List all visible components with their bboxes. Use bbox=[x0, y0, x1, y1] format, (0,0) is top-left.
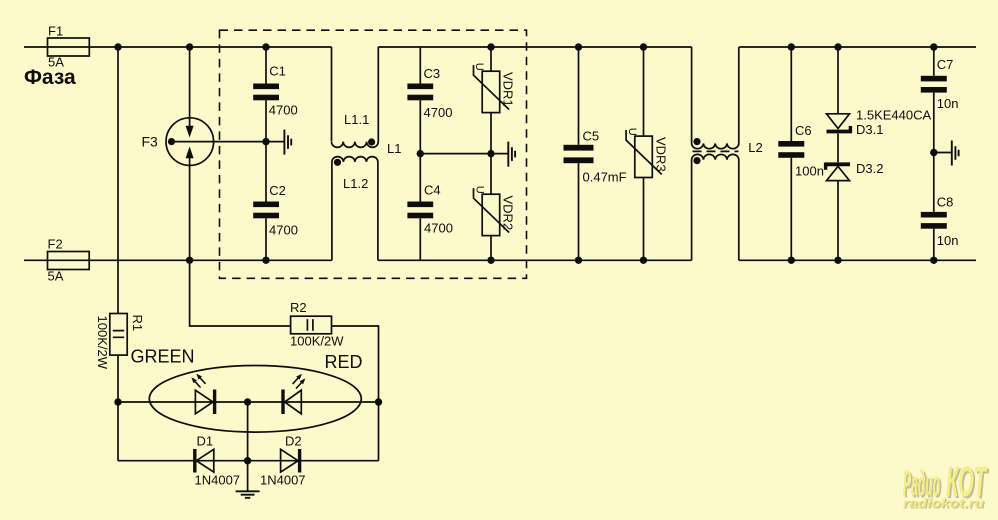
wire C6 bottom lead bbox=[790, 158, 792, 260]
svg-text:RED: RED bbox=[325, 352, 363, 372]
wire VDR2 bottom lead bbox=[490, 236, 492, 261]
junction dots mid lines bbox=[262, 138, 269, 145]
diode D2 bbox=[281, 449, 299, 472]
diode D1 bbox=[196, 449, 214, 472]
wire C3/C4 midpoint line to ground bbox=[420, 153, 508, 155]
wire C3-C4 link bbox=[419, 100, 421, 201]
svg-text:10n: 10n bbox=[937, 96, 959, 111]
watermark Радио КОТ bbox=[903, 458, 990, 512]
svg-text:100K/2W: 100K/2W bbox=[290, 334, 344, 349]
fuse F2 bbox=[48, 252, 90, 270]
L2 core bbox=[693, 150, 739, 152]
node L1.1 polarity dot bbox=[368, 138, 375, 145]
svg-text:VDR1: VDR1 bbox=[501, 72, 516, 107]
F3 lower arrow bbox=[189, 158, 191, 165]
svg-text:1N4007: 1N4007 bbox=[260, 473, 306, 488]
inductor L2 bottom winding bbox=[692, 154, 739, 260]
wire VDR3 bottom lead bbox=[643, 178, 645, 261]
wire F3 slider line to C1/C2 midpoint and ground bbox=[172, 141, 285, 143]
svg-text:U: U bbox=[474, 186, 486, 194]
ground (C7/C8 midpoint) bbox=[952, 141, 959, 166]
TVS diode D3.1 bbox=[827, 114, 850, 129]
wire bottom rail middle segment bbox=[378, 259, 692, 261]
svg-text:D2: D2 bbox=[285, 434, 302, 449]
wire bottom rail left segment bbox=[24, 259, 332, 261]
node L1.2 polarity dot bbox=[334, 159, 341, 166]
svg-text:U: U bbox=[473, 63, 485, 71]
svg-text:4700: 4700 bbox=[269, 223, 298, 238]
wire VDR3 top lead bbox=[643, 47, 645, 136]
svg-text:100K/2W: 100K/2W bbox=[95, 316, 110, 370]
varistor VDR3 bbox=[635, 136, 653, 177]
capacitor C3 bbox=[407, 84, 433, 90]
wire bottom rail right segment bbox=[739, 259, 976, 261]
svg-text:L1.2: L1.2 bbox=[343, 176, 368, 191]
varistor VDR2 bbox=[482, 194, 500, 235]
fuse F1 bbox=[48, 38, 90, 56]
wire C1-C2 link bbox=[265, 100, 267, 201]
wire C3 top lead bbox=[419, 47, 421, 84]
node F3 slider dot bbox=[168, 138, 175, 145]
svg-text:L1.1: L1.1 bbox=[344, 112, 369, 127]
junction dots bottom rail bbox=[186, 257, 193, 264]
wire R1 bottom to LED row and D row bbox=[117, 355, 119, 461]
junction dots top rail bbox=[114, 43, 937, 464]
junction dots LED network bbox=[114, 398, 121, 405]
svg-text:1N4007: 1N4007 bbox=[195, 473, 241, 488]
svg-text:U: U bbox=[626, 128, 638, 136]
wire VDR1 top lead bbox=[490, 47, 492, 71]
capacitor C7 bbox=[921, 76, 947, 82]
wire top rail right segment bbox=[739, 46, 976, 48]
svg-text:C4: C4 bbox=[424, 182, 441, 197]
svg-text:C7: C7 bbox=[937, 57, 954, 72]
svg-text:D3.2: D3.2 bbox=[856, 161, 883, 176]
wire C2 bottom lead bbox=[265, 218, 267, 260]
TVS diode D3.2 bbox=[825, 162, 851, 166]
svg-text:R2: R2 bbox=[290, 300, 307, 315]
svg-text:L2: L2 bbox=[748, 140, 762, 155]
wire D3.1-D3.2 link bbox=[837, 134, 839, 163]
svg-text:D3.1: D3.1 bbox=[856, 122, 883, 137]
wire C7 top lead bbox=[933, 47, 935, 76]
capacitor C2 bbox=[253, 202, 279, 208]
LED GREEN bbox=[195, 390, 213, 414]
inductor L1.1 bbox=[332, 47, 379, 147]
svg-text:10n: 10n bbox=[937, 233, 959, 248]
wire top rail middle segment bbox=[378, 46, 691, 48]
ground (C3/C4 midpoint) bbox=[508, 142, 515, 167]
svg-text:C6: C6 bbox=[795, 123, 812, 138]
wire C8 bottom lead bbox=[933, 229, 935, 261]
svg-text:C5: C5 bbox=[583, 129, 600, 144]
F3 upper arrow bbox=[189, 118, 191, 126]
wire D3.2 bottom lead bbox=[837, 181, 839, 261]
ground (C1/C2 midpoint) bbox=[284, 130, 291, 155]
svg-text:radiokot.ru: radiokot.ru bbox=[903, 496, 984, 511]
ground (LED midpoint) bbox=[236, 491, 260, 498]
capacitor C6 bbox=[778, 141, 804, 147]
svg-text:R1: R1 bbox=[130, 315, 145, 332]
node L2 top polarity dot bbox=[693, 138, 700, 145]
thermal cutout F3 bbox=[166, 118, 214, 166]
wire C5 top lead bbox=[578, 47, 580, 145]
svg-text:C8: C8 bbox=[937, 195, 954, 210]
svg-text:1.5KE440CA: 1.5KE440CA bbox=[856, 108, 931, 123]
wire C1 top lead bbox=[265, 47, 267, 84]
wire VDR2 top lead bbox=[490, 154, 492, 195]
wire LED row bbox=[118, 401, 379, 403]
wire F3 bottom lead down to R2 feed bbox=[190, 165, 291, 326]
svg-text:100n: 100n bbox=[795, 164, 824, 179]
wire C5 bottom lead bbox=[578, 163, 580, 260]
svg-text:C2: C2 bbox=[269, 183, 286, 198]
resistor R1 bbox=[110, 314, 127, 356]
svg-text:0.47mF: 0.47mF bbox=[583, 170, 627, 185]
svg-text:Фаза: Фаза bbox=[24, 66, 76, 89]
wire phase drop to R1 bbox=[117, 47, 119, 314]
svg-text:F2: F2 bbox=[48, 237, 63, 252]
wire top rail left segment bbox=[24, 46, 332, 48]
capacitor C1 bbox=[253, 84, 279, 90]
wire D3.1 top lead bbox=[837, 47, 839, 114]
wire VDR1 bottom lead bbox=[490, 113, 492, 154]
resistor R2 bbox=[291, 316, 332, 334]
wire F3 top lead bbox=[189, 47, 191, 118]
node L2 bottom polarity dot bbox=[693, 157, 700, 164]
wire C7-C8 link bbox=[933, 93, 935, 212]
svg-text:L1: L1 bbox=[387, 141, 401, 156]
svg-text:F3: F3 bbox=[142, 134, 159, 150]
svg-text:4700: 4700 bbox=[424, 221, 453, 236]
wire D row bbox=[118, 460, 379, 462]
varistor VDR1 bbox=[482, 71, 500, 112]
svg-text:5A: 5A bbox=[48, 269, 64, 284]
dashed filter box bbox=[220, 30, 527, 278]
capacitor C8 bbox=[921, 212, 947, 218]
svg-text:4700: 4700 bbox=[424, 105, 453, 120]
svg-text:D1: D1 bbox=[197, 434, 214, 449]
svg-text:VDR2: VDR2 bbox=[501, 196, 516, 231]
wire ground stub C7/C8 midpoint bbox=[934, 152, 952, 154]
svg-text:F1: F1 bbox=[48, 24, 63, 39]
wire LED midpoint to ground bbox=[247, 402, 249, 491]
svg-text:VDR3: VDR3 bbox=[654, 137, 669, 172]
LED ellipse bbox=[149, 366, 361, 433]
capacitor C4 bbox=[407, 202, 433, 208]
wire C4 bottom lead bbox=[419, 218, 421, 260]
inductor L2 top winding bbox=[692, 47, 739, 149]
LED RED bbox=[285, 390, 302, 414]
svg-text:C3: C3 bbox=[424, 66, 441, 81]
wire C6 top lead bbox=[790, 47, 792, 141]
svg-text:GREEN: GREEN bbox=[131, 347, 195, 367]
svg-text:C1: C1 bbox=[269, 64, 286, 79]
svg-text:4700: 4700 bbox=[269, 103, 298, 118]
wire R2 right to LED row and D row bbox=[332, 326, 379, 461]
inductor L1.2 bbox=[332, 157, 378, 261]
capacitor C5 bbox=[564, 145, 594, 151]
